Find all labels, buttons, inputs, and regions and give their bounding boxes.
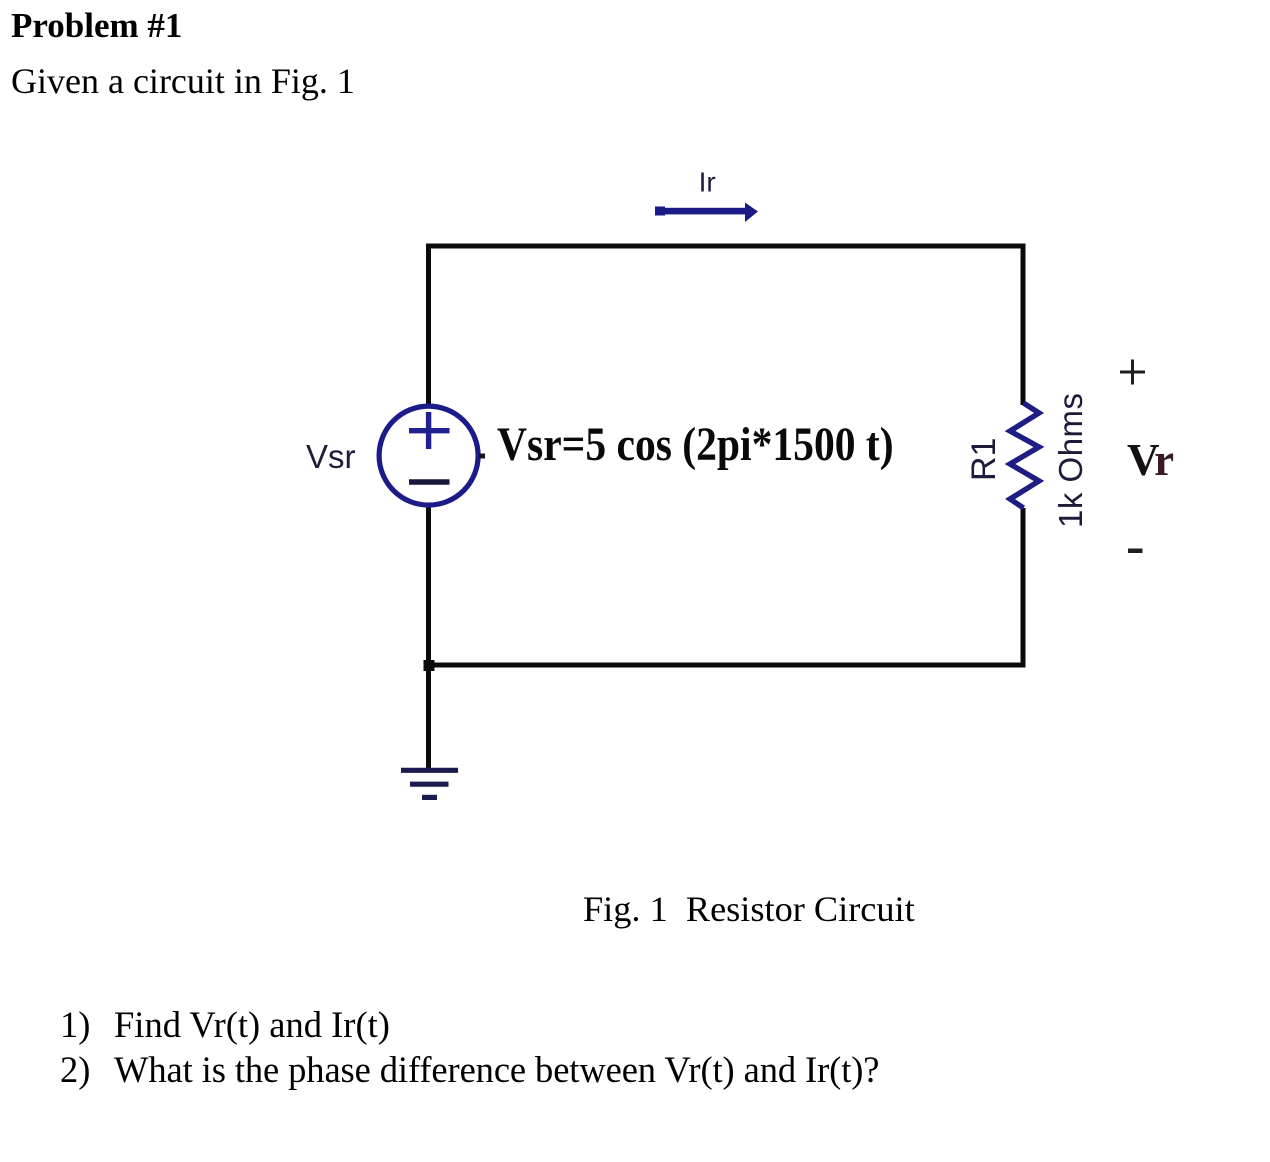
polarity plus (Vr) (1120, 360, 1145, 385)
resistor R1 zigzag (1010, 403, 1039, 508)
wire top (node between source and resistor) (426, 244, 1026, 249)
svg-text:R1: R1 (965, 438, 1003, 481)
source equation Vsr=5 cos (2pi*1500 t) (497, 417, 894, 472)
wire left upper (source top to top wire) (426, 244, 431, 408)
wire right upper (top wire to resistor) (1021, 244, 1026, 406)
svg-text:Ir: Ir (699, 167, 716, 198)
voltage source U (Vsr) circle (379, 406, 478, 505)
node junction dot at ground branch (424, 660, 435, 671)
text "Given a circuit in Fig. 1" (11, 60, 355, 102)
source right pin nub (479, 454, 485, 459)
question list (60, 1003, 90, 1046)
minus sign inside source (409, 479, 450, 484)
polarity minus (Vr) (1128, 549, 1143, 554)
ground symbol (401, 770, 458, 797)
voltage label Vr (1127, 434, 1172, 486)
title "Problem #1" (11, 6, 182, 46)
current arrow Ir (655, 203, 758, 223)
wire left lower (source bottom to ground) (426, 505, 431, 769)
svg-text:Vsr: Vsr (306, 438, 356, 475)
wire right lower (resistor to bottom wire) (1021, 508, 1026, 668)
figure caption (583, 888, 915, 930)
wire bottom (return wire) (426, 663, 1026, 668)
svg-text:1k Ohms: 1k Ohms (1052, 392, 1089, 528)
plus sign inside source (409, 412, 450, 449)
